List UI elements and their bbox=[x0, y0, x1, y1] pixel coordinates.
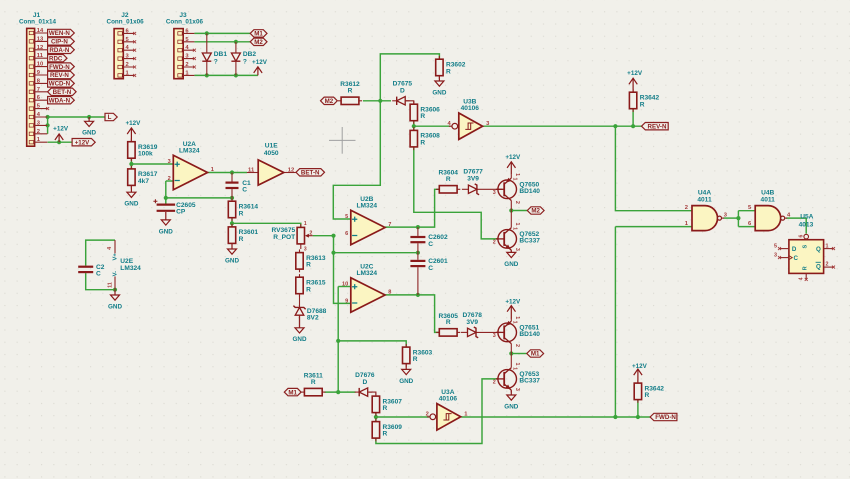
power +12V bbox=[505, 154, 521, 175]
label +12V bbox=[72, 139, 95, 147]
zener diode D7678 bbox=[461, 312, 501, 338]
wire bbox=[337, 287, 339, 393]
NAND gate U4A bbox=[685, 190, 728, 231]
junction bbox=[205, 73, 209, 77]
svg-text:1: 1 bbox=[514, 173, 520, 176]
label FWD-N bbox=[650, 413, 677, 421]
svg-text:11: 11 bbox=[37, 53, 44, 59]
svg-text:3: 3 bbox=[168, 159, 171, 165]
svg-text:R: R bbox=[306, 286, 311, 293]
no-connect x bbox=[193, 49, 196, 52]
ground bbox=[504, 390, 518, 410]
wire bbox=[165, 181, 167, 204]
resistor R3603 bbox=[403, 344, 433, 367]
svg-text:M1: M1 bbox=[531, 351, 540, 358]
svg-text:S: S bbox=[802, 244, 808, 248]
wire bbox=[86, 273, 115, 290]
power +12V bbox=[632, 363, 648, 383]
svg-text:CIP-N: CIP-N bbox=[51, 39, 68, 46]
wire bbox=[334, 252, 418, 254]
svg-text:1: 1 bbox=[211, 167, 214, 173]
label M2 (R3612) bbox=[321, 97, 338, 105]
connector J2 bbox=[114, 28, 135, 78]
wire bbox=[483, 125, 642, 127]
svg-text:10: 10 bbox=[37, 62, 43, 68]
svg-text:D: D bbox=[363, 379, 368, 386]
wire bbox=[363, 100, 391, 102]
label M2 (J3) bbox=[250, 38, 267, 46]
transistor Q7651 bbox=[493, 321, 541, 344]
label M1 (J3) bbox=[250, 30, 267, 38]
junction bbox=[331, 251, 335, 255]
junction bbox=[336, 339, 340, 343]
svg-text:1: 1 bbox=[514, 316, 520, 319]
svg-text:100k: 100k bbox=[138, 151, 153, 158]
svg-text:GND: GND bbox=[82, 130, 96, 137]
label RDA-N bbox=[48, 46, 75, 54]
junction bbox=[336, 390, 340, 394]
wire bbox=[414, 125, 451, 127]
wire bbox=[738, 226, 755, 228]
ground bbox=[399, 364, 413, 385]
resistor R3604 bbox=[436, 170, 460, 193]
resistor R3611 bbox=[301, 373, 325, 396]
svg-text:R: R bbox=[420, 113, 425, 120]
svg-text:REV-N: REV-N bbox=[648, 123, 667, 130]
wire bbox=[615, 226, 692, 228]
svg-text:GND: GND bbox=[293, 336, 307, 343]
wire bbox=[418, 189, 439, 227]
svg-text:R: R bbox=[383, 431, 388, 438]
junction bbox=[129, 162, 133, 166]
wire bbox=[48, 116, 105, 118]
svg-text:2: 2 bbox=[309, 230, 312, 236]
wire bbox=[414, 147, 498, 239]
svg-text:U5A: U5A bbox=[800, 213, 813, 220]
svg-text:7: 7 bbox=[388, 222, 391, 228]
svg-text:3: 3 bbox=[514, 248, 520, 251]
wire bbox=[325, 391, 356, 393]
diode DB2 leads bbox=[235, 33, 237, 75]
svg-text:+12V: +12V bbox=[125, 120, 141, 127]
capacitor C2 bbox=[78, 264, 105, 278]
svg-text:R: R bbox=[383, 405, 388, 412]
resistor R3602 bbox=[436, 56, 466, 79]
junction bbox=[46, 115, 50, 119]
svg-text:4: 4 bbox=[799, 277, 805, 280]
ground bbox=[293, 315, 307, 343]
junction bbox=[230, 221, 234, 225]
label FWD-N bbox=[48, 63, 75, 71]
svg-text:WEN-N: WEN-N bbox=[49, 30, 70, 37]
no-connect x bbox=[193, 57, 196, 60]
wire bbox=[333, 101, 380, 219]
no-connect x bbox=[133, 40, 136, 43]
wire bbox=[375, 413, 377, 422]
resistor R3617 bbox=[128, 166, 158, 189]
resistor R3642 (top) bbox=[629, 89, 659, 112]
wire bbox=[511, 353, 527, 355]
wire bbox=[48, 141, 73, 143]
ground bbox=[225, 243, 239, 264]
label BET-N (U1E output) bbox=[296, 169, 325, 177]
svg-text:11: 11 bbox=[248, 167, 255, 173]
svg-text:13: 13 bbox=[37, 36, 44, 42]
svg-text:M1: M1 bbox=[254, 31, 263, 38]
svg-text:D7677: D7677 bbox=[463, 169, 483, 176]
svg-text:9: 9 bbox=[345, 299, 348, 305]
svg-text:8: 8 bbox=[388, 289, 391, 295]
connector J2 reference text bbox=[107, 12, 145, 26]
svg-text:2: 2 bbox=[826, 262, 829, 268]
svg-text:R: R bbox=[446, 319, 451, 326]
svg-text:2: 2 bbox=[685, 205, 688, 211]
zener D7688 leads bbox=[299, 294, 301, 328]
svg-text:2: 2 bbox=[493, 240, 496, 246]
connector J3 reference text bbox=[166, 12, 204, 26]
svg-text:DB1: DB1 bbox=[214, 51, 228, 58]
no-connect x bbox=[133, 49, 136, 52]
svg-text:R: R bbox=[239, 236, 244, 243]
resistor R3615 bbox=[296, 274, 326, 297]
resistor R3614 bbox=[228, 198, 258, 221]
junction bbox=[613, 415, 617, 419]
svg-text:GND: GND bbox=[225, 257, 239, 264]
junction bbox=[87, 115, 91, 119]
svg-text:R: R bbox=[239, 210, 244, 217]
svg-text:5: 5 bbox=[345, 214, 348, 220]
op-amp U2B bbox=[345, 196, 391, 245]
svg-text:C: C bbox=[96, 271, 101, 278]
connector J1 bbox=[27, 28, 48, 146]
svg-text:3: 3 bbox=[514, 388, 520, 391]
label RDC bbox=[48, 55, 67, 63]
svg-text:4011: 4011 bbox=[697, 197, 712, 204]
ground bbox=[124, 185, 138, 207]
junction bbox=[412, 124, 416, 128]
svg-text:GND: GND bbox=[108, 303, 122, 310]
svg-text:M2: M2 bbox=[325, 98, 334, 105]
svg-text:4k7: 4k7 bbox=[138, 178, 149, 185]
resistor R3601 bbox=[228, 224, 258, 247]
svg-text:FWD-N: FWD-N bbox=[655, 414, 676, 421]
wire bbox=[418, 295, 439, 333]
svg-text:BET-N: BET-N bbox=[53, 89, 72, 96]
transistor pins bbox=[511, 354, 520, 393]
junction bbox=[234, 40, 238, 44]
svg-text:R: R bbox=[802, 266, 808, 270]
no-connect x bbox=[778, 256, 781, 259]
no-connect x bbox=[832, 247, 835, 250]
svg-text:5: 5 bbox=[774, 244, 777, 250]
wire bbox=[385, 226, 418, 228]
svg-text:U1E: U1E bbox=[265, 143, 278, 150]
wire bbox=[338, 341, 406, 347]
svg-text:BC337: BC337 bbox=[519, 238, 540, 245]
wire bbox=[166, 180, 174, 182]
svg-text:14: 14 bbox=[37, 28, 44, 34]
wire bbox=[724, 217, 739, 219]
svg-text:+12V: +12V bbox=[252, 59, 268, 66]
svg-text:Q: Q bbox=[816, 246, 821, 253]
junction bbox=[234, 73, 238, 77]
resistor R3605 bbox=[436, 313, 460, 336]
capacitor C2602 bbox=[410, 227, 448, 253]
no-connect x bbox=[133, 57, 136, 60]
label REV-N bbox=[642, 123, 669, 131]
svg-text:LM324: LM324 bbox=[120, 265, 141, 272]
junction bbox=[736, 216, 740, 220]
junction bbox=[636, 415, 640, 419]
resistor R3619 bbox=[128, 139, 158, 162]
wire bbox=[413, 121, 415, 131]
svg-text:C: C bbox=[242, 187, 247, 194]
svg-text:DB2: DB2 bbox=[243, 51, 257, 58]
svg-text:D: D bbox=[792, 246, 797, 253]
svg-text:4011: 4011 bbox=[761, 197, 776, 204]
svg-text:40106: 40106 bbox=[439, 396, 458, 403]
transistor pins bbox=[511, 211, 520, 253]
svg-text:6: 6 bbox=[799, 235, 805, 238]
svg-text:R: R bbox=[645, 392, 650, 399]
wire bbox=[615, 126, 692, 211]
junction bbox=[374, 415, 378, 419]
wire bbox=[194, 74, 258, 76]
resistor R3609 bbox=[372, 418, 402, 441]
svg-text:40106: 40106 bbox=[461, 105, 480, 112]
svg-text:D7676: D7676 bbox=[355, 372, 375, 379]
wire bbox=[461, 416, 650, 418]
no-connect x bbox=[133, 32, 136, 35]
resistor R3612 bbox=[338, 81, 362, 104]
svg-text:2: 2 bbox=[514, 201, 520, 204]
svg-text:1: 1 bbox=[304, 221, 307, 227]
svg-text:GND: GND bbox=[432, 89, 446, 96]
svg-text:D: D bbox=[400, 88, 405, 95]
junction bbox=[416, 225, 420, 229]
svg-text:R: R bbox=[446, 68, 451, 75]
power +12V bbox=[627, 70, 643, 92]
svg-text:M2: M2 bbox=[254, 39, 263, 46]
no-connect x bbox=[46, 107, 49, 110]
transistor pins bbox=[511, 316, 520, 353]
label M1 (motor node) bbox=[527, 350, 544, 358]
svg-text:WCD-N: WCD-N bbox=[49, 81, 71, 88]
svg-text:V-: V- bbox=[113, 271, 119, 277]
svg-text:Conn_01x06: Conn_01x06 bbox=[166, 18, 204, 25]
wire bbox=[334, 236, 351, 304]
svg-text:R: R bbox=[348, 88, 353, 95]
inverter U3A bbox=[426, 389, 469, 430]
diode D7676 lead bbox=[369, 392, 376, 396]
svg-text:+12V: +12V bbox=[632, 363, 648, 370]
svg-text:WDA-N: WDA-N bbox=[49, 97, 71, 104]
svg-text:GND: GND bbox=[399, 378, 413, 385]
power +12V bbox=[125, 120, 141, 142]
junction bbox=[230, 170, 234, 174]
power +12V bbox=[53, 125, 69, 142]
svg-text:2: 2 bbox=[185, 62, 188, 68]
connector J3 bbox=[174, 28, 195, 78]
wire bbox=[632, 109, 634, 126]
wire bbox=[637, 400, 639, 417]
diode D7676 bbox=[355, 372, 375, 396]
potentiometer RV3675 bbox=[271, 221, 312, 253]
svg-text:Conn_01x06: Conn_01x06 bbox=[107, 18, 145, 25]
junction bbox=[631, 124, 635, 128]
label L bbox=[105, 113, 117, 121]
wire bbox=[786, 218, 806, 234]
svg-text:+12V: +12V bbox=[53, 125, 69, 132]
svg-text:R: R bbox=[311, 379, 316, 386]
resistor R3607 bbox=[372, 393, 402, 416]
label M2 (motor node) bbox=[527, 207, 544, 215]
wire bbox=[376, 416, 429, 418]
svg-text:GND: GND bbox=[159, 228, 173, 235]
transistor pins bbox=[511, 173, 520, 210]
svg-text:R: R bbox=[306, 262, 311, 269]
wire bbox=[737, 211, 739, 227]
wire bbox=[232, 223, 301, 227]
svg-text:R: R bbox=[446, 176, 451, 183]
junction bbox=[416, 251, 420, 255]
wire bbox=[131, 163, 173, 165]
svg-text:3: 3 bbox=[493, 333, 496, 339]
label BET-N bbox=[48, 88, 77, 96]
label WEN-N bbox=[48, 29, 75, 37]
diode DB1 leads bbox=[206, 33, 208, 75]
svg-text:1: 1 bbox=[826, 244, 829, 250]
junction bbox=[57, 140, 61, 144]
no-connect x bbox=[832, 266, 835, 269]
resistor R3642 (bottom) bbox=[634, 380, 664, 403]
svg-text:3: 3 bbox=[774, 253, 777, 259]
svg-text:6: 6 bbox=[345, 231, 348, 237]
junction bbox=[46, 123, 50, 127]
wire bbox=[511, 210, 527, 212]
svg-text:2: 2 bbox=[514, 344, 520, 347]
svg-text:M2: M2 bbox=[531, 208, 540, 215]
label M1 (R3611) bbox=[284, 388, 301, 396]
wire bbox=[166, 197, 232, 199]
svg-text:+12V: +12V bbox=[627, 70, 643, 77]
junction bbox=[509, 208, 513, 212]
svg-text:BET-N: BET-N bbox=[301, 170, 320, 177]
buffer U1E bbox=[247, 143, 296, 186]
svg-text:GND: GND bbox=[504, 261, 518, 268]
svg-text:12: 12 bbox=[288, 167, 294, 173]
svg-text:3V9: 3V9 bbox=[467, 176, 479, 183]
wire bbox=[376, 379, 498, 444]
junction bbox=[164, 196, 168, 200]
svg-text:FWD-N: FWD-N bbox=[49, 64, 70, 71]
svg-text:3: 3 bbox=[304, 246, 307, 252]
ground bbox=[504, 250, 518, 267]
no-connect x bbox=[133, 74, 136, 77]
zener diode D7677 bbox=[462, 169, 502, 195]
svg-text:+12V: +12V bbox=[505, 154, 521, 161]
label CIP-N bbox=[48, 38, 75, 46]
ground bbox=[108, 290, 122, 311]
svg-text:L: L bbox=[108, 114, 112, 121]
wire bbox=[194, 41, 250, 43]
svg-text:1: 1 bbox=[512, 178, 518, 181]
no-connect x bbox=[778, 247, 781, 250]
no-connect x bbox=[805, 278, 808, 281]
svg-text:C: C bbox=[428, 241, 433, 248]
diode DB2 bbox=[231, 51, 256, 65]
ground bbox=[432, 76, 446, 97]
diode D7675 bbox=[392, 81, 412, 105]
svg-text:R: R bbox=[640, 101, 645, 108]
svg-text:REV-N: REV-N bbox=[50, 72, 69, 79]
svg-text:2: 2 bbox=[426, 412, 429, 418]
svg-text:Q: Q bbox=[816, 264, 821, 271]
label WDA-N bbox=[48, 97, 75, 105]
op-amp U2A bbox=[168, 141, 214, 190]
svg-text:U2E: U2E bbox=[120, 258, 133, 265]
svg-text:2: 2 bbox=[168, 176, 171, 182]
ground bbox=[82, 117, 96, 137]
transistor Q7652 bbox=[493, 227, 541, 250]
junction bbox=[205, 31, 209, 35]
junction bbox=[113, 288, 117, 292]
wire bbox=[86, 240, 115, 266]
svg-text:BC337: BC337 bbox=[519, 378, 540, 385]
no-connect x bbox=[193, 66, 196, 69]
svg-text:10: 10 bbox=[342, 282, 348, 288]
junction bbox=[378, 99, 382, 103]
capacitor C1 bbox=[226, 173, 252, 198]
resistor R3606 bbox=[410, 101, 440, 124]
svg-text:LM324: LM324 bbox=[357, 203, 378, 210]
svg-text:R: R bbox=[420, 140, 425, 147]
transistor Q7653 bbox=[493, 367, 541, 390]
wire bbox=[47, 117, 49, 134]
svg-text:U4B: U4B bbox=[761, 190, 774, 197]
transistor Q7650 bbox=[493, 178, 541, 201]
wire bbox=[385, 294, 418, 296]
svg-text:RDC: RDC bbox=[49, 55, 63, 62]
wire bbox=[614, 227, 616, 417]
flip-flop U5A bbox=[774, 213, 834, 280]
label REV-N bbox=[48, 71, 75, 79]
wire bbox=[313, 235, 334, 237]
svg-text:1: 1 bbox=[512, 367, 518, 370]
svg-text:+12V: +12V bbox=[75, 139, 90, 146]
sheet crosshair marker bbox=[329, 127, 356, 154]
svg-text:M1: M1 bbox=[288, 389, 297, 396]
junction bbox=[230, 196, 234, 200]
svg-text:12: 12 bbox=[37, 45, 43, 51]
ground bbox=[159, 212, 173, 235]
svg-text:11: 11 bbox=[108, 282, 114, 288]
svg-text:2: 2 bbox=[493, 380, 496, 386]
svg-text:D7678: D7678 bbox=[462, 312, 482, 319]
diode DB1 bbox=[202, 51, 227, 65]
inverter U3B bbox=[447, 98, 490, 139]
diode D7675 lead bbox=[405, 101, 414, 104]
svg-text:BD140: BD140 bbox=[519, 188, 540, 195]
wire bbox=[738, 210, 755, 212]
svg-text:LM324: LM324 bbox=[179, 148, 200, 155]
svg-text:8V2: 8V2 bbox=[307, 315, 319, 322]
svg-text:3: 3 bbox=[493, 190, 496, 196]
svg-text:1: 1 bbox=[514, 363, 520, 366]
no-connect x bbox=[133, 66, 136, 69]
svg-text:LM324: LM324 bbox=[357, 270, 378, 277]
wire bbox=[208, 172, 248, 174]
